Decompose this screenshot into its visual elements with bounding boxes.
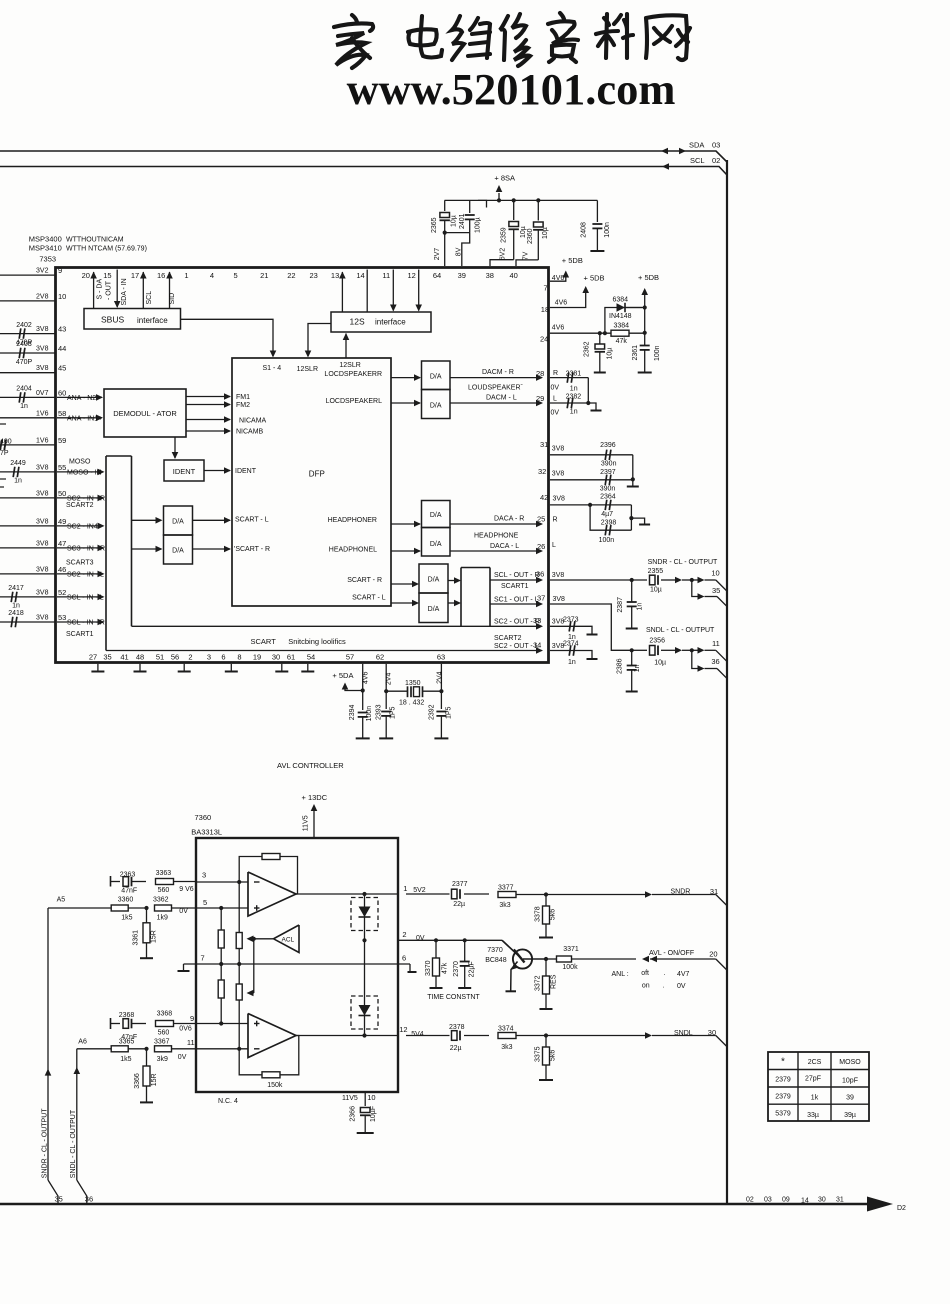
label SC2-OUT-R <box>494 619 540 626</box>
svg-text:+ 5DB: + 5DB <box>562 256 583 265</box>
svg-text:AVL CONTROLLER: AVL CONTROLLER <box>277 761 344 770</box>
wire stub fragment left margin (pin58 row) <box>0 423 6 425</box>
op-amp lower (SNDL) <box>248 1014 296 1058</box>
svg-text:34: 34 <box>533 641 541 650</box>
svg-text:14: 14 <box>801 1198 809 1205</box>
svg-text:IDENT: IDENT <box>173 467 196 476</box>
wire +5DB vertical (right of diode) <box>641 288 648 345</box>
svg-text:2449: 2449 <box>10 460 26 467</box>
resistor 3375 5k6 (to ground) <box>535 1036 557 1081</box>
svg-text:33µ: 33µ <box>807 1112 819 1119</box>
svg-text:+ 5DA: + 5DA <box>332 671 353 680</box>
svg-text:SDA: SDA <box>689 141 704 150</box>
svg-text:'SCART - R: 'SCART - R <box>234 546 270 553</box>
pin number 31 / label 3V8 <box>540 440 564 453</box>
pin 35 connector <box>712 586 720 595</box>
resistor internal lower-left <box>218 980 224 998</box>
pin 35 label (bottom) <box>55 1195 63 1204</box>
svg-text:2417: 2417 <box>8 585 24 592</box>
label R / 0V (pin 28) <box>551 370 560 392</box>
svg-text:50: 50 <box>58 489 66 498</box>
transistor 7370 BC848 <box>502 940 544 991</box>
wire pin14 into 12S <box>366 270 368 313</box>
svg-text:0V7: 0V7 <box>36 390 49 397</box>
pin number 43 (left edge) <box>58 325 66 334</box>
svg-text:41: 41 <box>120 653 128 662</box>
svg-text:3360: 3360 <box>118 897 134 904</box>
svg-text:ANA - IN1+: ANA - IN1+ <box>67 415 102 422</box>
capacitor 2402 470P on pin 43 wire <box>16 322 33 347</box>
svg-text:100n: 100n <box>366 706 373 722</box>
diode clamp lower (dashed box) <box>351 996 378 1029</box>
svg-text:15: 15 <box>103 271 111 280</box>
label 6384 <box>613 296 629 303</box>
wire SNDR-CL-OUTPUT rail <box>45 908 58 1204</box>
svg-text:0V: 0V <box>178 1054 187 1061</box>
label LOUDSPEAKER' <box>468 385 524 392</box>
arrow D2 bus (bottom right) <box>867 1197 893 1212</box>
wire DFP HEADPHONER to D/A <box>391 521 421 528</box>
pin number 33 <box>533 616 541 625</box>
resistor 150k feedback (lower) <box>262 1072 283 1089</box>
svg-text:0V6: 0V6 <box>179 1026 192 1033</box>
svg-text:35: 35 <box>103 653 111 662</box>
wire DFP LOCDSPEAKERL to D/A <box>391 400 421 407</box>
svg-text:L: L <box>552 542 556 549</box>
svg-text:1k5: 1k5 <box>120 1056 131 1063</box>
wire input into SCART switch at y=525.9 <box>57 523 105 530</box>
svg-text:HEADPHONEL: HEADPHONEL <box>329 547 377 554</box>
wire pin12 to SNDL net <box>406 1035 489 1037</box>
svg-text:1n: 1n <box>634 664 641 672</box>
svg-text:64: 64 <box>433 271 441 280</box>
svg-text:32: 32 <box>538 467 546 476</box>
svg-text:1: 1 <box>184 271 188 280</box>
svg-text:40: 40 <box>510 271 518 280</box>
svg-text:7V: 7V <box>522 251 529 260</box>
label SC2-OUT-L <box>494 643 539 650</box>
svg-text:R: R <box>553 370 558 377</box>
label SCL-OUT-R <box>494 572 540 579</box>
svg-text:MOSO - IN: MOSO - IN <box>67 469 102 476</box>
wire +8SA rail <box>445 198 598 202</box>
svg-text:3367: 3367 <box>154 1038 170 1045</box>
svg-text:10pF: 10pF <box>842 1078 858 1085</box>
capacitor 2382 1n <box>550 394 588 416</box>
wire 2368 to 3368 <box>132 1023 146 1025</box>
svg-text:SNDR: SNDR <box>671 888 691 895</box>
wire pin13 into 12S <box>339 272 346 313</box>
label 7V <box>522 251 529 260</box>
wire pin17 SCL to SBUS <box>140 272 147 309</box>
label SCART-R (DFP output) <box>347 577 382 584</box>
pin number 52 (left edge) <box>58 588 66 597</box>
svg-text:22µF: 22µF <box>469 961 476 977</box>
capacitor 2394 100n <box>349 705 373 739</box>
svg-text:30: 30 <box>818 1197 826 1204</box>
svg-text:0V: 0V <box>179 908 188 915</box>
wire DACM-R to pin 28 <box>450 374 543 381</box>
wire pin10 bottom / capacitor 2366 10uF <box>357 1092 374 1133</box>
wire pin16 SID to SBUS <box>166 272 173 309</box>
pin number 29 <box>536 394 544 403</box>
svg-text:42: 42 <box>540 493 548 502</box>
svg-text:27pF: 27pF <box>805 1076 821 1083</box>
wire SC2-OUT-R to pin 33 <box>132 623 544 630</box>
svg-text:3384: 3384 <box>614 322 630 329</box>
svg-text:43: 43 <box>58 325 66 334</box>
pin number 1 / label 5V2 <box>403 884 426 894</box>
svg-text:560: 560 <box>158 1030 170 1037</box>
pin number 30 (connector) <box>708 1028 716 1037</box>
wire input stub (lower, to 2368) <box>111 1018 121 1029</box>
svg-text:A6: A6 <box>78 1038 87 1045</box>
svg-text:470P: 470P <box>16 359 33 366</box>
svg-text:53: 53 <box>58 613 66 622</box>
svg-text:11: 11 <box>382 271 390 280</box>
label SCART3 <box>66 559 94 566</box>
wire input into SCART switch at y=573.9 <box>57 571 105 578</box>
svg-text:SCART1: SCART1 <box>501 583 529 590</box>
svg-text:3V8: 3V8 <box>36 464 49 471</box>
svg-text:3V8: 3V8 <box>36 490 49 497</box>
svg-text:2365: 2365 <box>431 217 438 233</box>
svg-text:ACL: ACL <box>282 937 295 944</box>
table row 5379 33u 39u <box>775 1111 856 1120</box>
svg-text:3V8: 3V8 <box>36 518 49 525</box>
label 7P fragment (left margin) <box>0 450 9 457</box>
svg-text:2CS: 2CS <box>808 1059 822 1066</box>
label HEADPHONEL <box>329 547 377 554</box>
svg-text:SCL: SCL <box>146 291 153 305</box>
svg-text:*: * <box>781 1057 785 1068</box>
wire input stub (upper, to 2363) <box>111 876 121 887</box>
pin number 60 (left edge) <box>58 388 66 397</box>
table component-variants outline <box>768 1052 869 1121</box>
svg-text:47: 47 <box>58 539 66 548</box>
svg-text:2355: 2355 <box>648 568 664 575</box>
wire DACM-L to pin 29 <box>450 400 543 407</box>
label 4V6 (pin 7) <box>552 275 565 282</box>
svg-text:3V8: 3V8 <box>552 572 565 579</box>
block IDENT <box>164 460 204 481</box>
svg-text:IDENT: IDENT <box>235 468 257 475</box>
pin number 11 / wire - input (lower) <box>187 1038 248 1049</box>
capacitor 2359 10u <box>500 200 527 259</box>
svg-text:3V8: 3V8 <box>553 596 566 603</box>
svg-text:2V4: 2V4 <box>386 673 393 686</box>
pin number 46 (left edge) <box>58 565 66 574</box>
pin 36 label (bottom) <box>85 1195 93 1204</box>
svg-text:47k: 47k <box>442 962 449 974</box>
svg-text:1n: 1n <box>570 409 578 416</box>
wire pin 60 (0V7) left <box>0 396 56 398</box>
label SCART-R (DFP input) <box>234 546 270 553</box>
svg-text:2394: 2394 <box>349 705 356 721</box>
svg-text:BC848: BC848 <box>485 957 507 964</box>
svg-text:14: 14 <box>356 271 364 280</box>
wire pin1 output row <box>296 893 398 895</box>
svg-text:0V: 0V <box>416 935 425 942</box>
wire pin 9 (3V2) left <box>0 274 56 276</box>
svg-text:+ 5DB: + 5DB <box>584 274 605 283</box>
svg-text:49: 49 <box>58 517 66 526</box>
wire pin15 SDA-IN to SBUS <box>114 270 121 309</box>
svg-text:20: 20 <box>82 271 90 280</box>
label SID (pin16) <box>169 293 176 305</box>
ground below IC bottom edge at x=140 <box>134 664 147 672</box>
svg-text:22µ: 22µ <box>450 1045 462 1052</box>
wire demodulator FM1 to DFP <box>186 393 231 400</box>
svg-text:2379: 2379 <box>775 1077 791 1084</box>
svg-text:www.520101.com: www.520101.com <box>347 64 676 114</box>
capacitor 2398 100n <box>599 519 617 544</box>
resistor 3365 1k5 <box>111 1038 134 1063</box>
IC 7360 BA3313L outline box <box>196 838 398 1092</box>
svg-text:61: 61 <box>287 653 295 662</box>
label SCART2 <box>66 502 94 509</box>
svg-text:2370: 2370 <box>453 961 460 977</box>
wire pin60 ANA-N2+ into demodulator <box>57 394 103 401</box>
capacitor 2368 47nF <box>119 1012 137 1041</box>
pin number 28 <box>536 369 544 378</box>
svg-text:29: 29 <box>536 394 544 403</box>
label HEADPHONE <box>474 533 519 540</box>
pin numbers IC bottom edge <box>89 653 445 662</box>
svg-text:2V7: 2V7 <box>434 248 441 261</box>
resistor 3367 3k9 <box>154 1038 172 1063</box>
label L / 0V (pin 29) <box>551 396 560 417</box>
svg-text:44: 44 <box>58 344 66 353</box>
svg-text:36: 36 <box>85 1195 93 1204</box>
svg-text:10µ: 10µ <box>607 348 614 360</box>
label voltage 0V7 pin 60 <box>36 390 49 397</box>
svg-text:47k: 47k <box>616 338 628 345</box>
svg-text:51: 51 <box>156 653 164 662</box>
svg-text:15R: 15R <box>151 930 158 943</box>
svg-text:D/A: D/A <box>428 606 440 613</box>
svg-text:2382: 2382 <box>566 394 582 401</box>
wire SNDR row to border <box>516 891 727 905</box>
power +8SA arrow <box>496 185 503 200</box>
svg-text:SCL - IN - R: SCL - IN - R <box>67 620 105 627</box>
svg-text:- OUT: - OUT <box>106 280 113 300</box>
svg-text:3361: 3361 <box>132 930 139 946</box>
wire SBUS to DFP S1-4 <box>181 319 277 357</box>
label pin name ANA - IN1+ <box>67 415 102 422</box>
svg-text:1n: 1n <box>637 603 644 611</box>
wire stub fragment left margin (pin55 row) <box>0 479 6 487</box>
svg-text:27: 27 <box>89 653 97 662</box>
svg-text:2364: 2364 <box>600 494 616 501</box>
wire 2363 to 3363 <box>132 881 146 883</box>
label N.C.4 <box>218 1098 238 1105</box>
label +5DB (pin18) <box>584 274 605 283</box>
wire input into SCART switch at y=596.9 <box>57 594 105 601</box>
svg-text:3V2: 3V2 <box>36 268 49 275</box>
capacitor 2393 1P5 <box>376 704 397 738</box>
label R (pin 25) <box>553 517 558 524</box>
svg-text:4µ7: 4µ7 <box>601 511 613 518</box>
svg-text:3k3: 3k3 <box>501 1044 512 1051</box>
label pin name SC2 - IN - L <box>67 571 104 578</box>
wire demodulator NICAMA to DFP <box>186 416 231 423</box>
label DACM-L <box>486 394 517 401</box>
svg-text:SC2 - IN - L: SC2 - IN - L <box>67 571 104 578</box>
wire pin 59 (1V6) left <box>0 444 56 446</box>
svg-text:3k3: 3k3 <box>499 902 510 909</box>
pin number 24 <box>540 334 548 343</box>
wire pin1 to SNDR net <box>406 893 489 895</box>
label 11V5 (pin top) <box>303 815 310 831</box>
svg-text:D/A: D/A <box>172 519 184 526</box>
svg-text:7360: 7360 <box>195 813 212 822</box>
wire 12S to DFP (12SLR down) <box>305 324 331 358</box>
svg-text:2381: 2381 <box>566 370 582 377</box>
svg-text:09: 09 <box>782 1197 790 1204</box>
svg-text:2378: 2378 <box>449 1024 465 1031</box>
svg-text:5V4: 5V4 <box>411 1031 424 1038</box>
wire 2381/2382 join + ground <box>586 378 601 411</box>
capacitor 2370 22uF (time constant) <box>453 940 476 988</box>
label 7370 BC848 <box>485 947 507 964</box>
capacitor 2397 390n <box>550 469 633 493</box>
svg-text:8V: 8V <box>456 247 463 256</box>
wire demodulator to IDENT <box>172 437 179 459</box>
svg-text:BA3313L: BA3313L <box>191 828 222 837</box>
svg-text:SCART: SCART <box>251 637 277 646</box>
svg-text:100k: 100k <box>562 964 578 971</box>
svg-text:31: 31 <box>540 440 548 449</box>
svg-text:36: 36 <box>536 570 544 579</box>
label ANL: off 4V7 / on 0V <box>612 970 690 990</box>
svg-text:47nF: 47nF <box>121 888 137 895</box>
svg-text:7P: 7P <box>0 450 9 457</box>
pin number 2 / label 0V <box>402 930 424 942</box>
svg-text:SNDL - CL - OUTPUT: SNDL - CL - OUTPUT <box>70 1109 77 1178</box>
svg-text:2404: 2404 <box>16 386 32 393</box>
svg-text:interface: interface <box>375 318 406 327</box>
svg-text:1V6: 1V6 <box>36 410 49 417</box>
svg-text:12: 12 <box>408 271 416 280</box>
wire pin12 into 12S <box>415 270 422 312</box>
svg-text:AVL - ON/OFF: AVL - ON/OFF <box>649 950 694 957</box>
svg-text:2403: 2403 <box>16 341 32 348</box>
svg-text:D/A: D/A <box>172 548 184 555</box>
label SNDR-CL-OUTPUT (rotated) <box>42 1108 49 1178</box>
svg-text:D/A: D/A <box>430 512 442 519</box>
block SCART switch right column <box>461 568 490 627</box>
ground below IC bottom edge at x=184.2 <box>178 664 191 672</box>
wire pin7-pin6 line through chip <box>184 963 411 965</box>
ACL control amp triangle <box>274 925 300 953</box>
svg-text:13: 13 <box>331 271 339 280</box>
label DFP <box>309 470 325 479</box>
label pin name SC2 - IN - R <box>67 495 105 502</box>
svg-text:SDA - IN: SDA - IN <box>121 278 128 305</box>
svg-text:S1 - 4: S1 - 4 <box>263 365 282 372</box>
label SCL 02 <box>690 156 720 165</box>
svg-text:33: 33 <box>533 616 541 625</box>
label SCART-L (DFP output) <box>352 594 386 601</box>
label SC1-OUT-L <box>494 597 539 604</box>
label pin name SCL - IN - R <box>67 620 105 627</box>
pin number 31 (connector) <box>710 887 718 896</box>
wire scart D/A to output column (lower) <box>448 600 461 607</box>
resistor 3371 100k <box>557 946 579 971</box>
label 2V4 (pin63) <box>437 671 444 684</box>
capacitor 2374 1n <box>550 641 598 667</box>
svg-text:3V8: 3V8 <box>553 495 566 502</box>
svg-text:on: on <box>642 982 650 989</box>
svg-text:45: 45 <box>58 364 66 373</box>
svg-text:SCART3: SCART3 <box>66 559 94 566</box>
svg-text:2397: 2397 <box>600 469 616 476</box>
svg-text:24: 24 <box>540 334 548 343</box>
arrow SDA left <box>661 148 668 155</box>
svg-text:2: 2 <box>188 653 192 662</box>
svg-text:L: L <box>553 396 557 403</box>
label SCART2 (right) <box>494 635 522 642</box>
block SBUS interface <box>84 309 181 330</box>
pin number 26 <box>537 542 545 551</box>
svg-text:52: 52 <box>58 588 66 597</box>
svg-text:FM1: FM1 <box>236 394 250 401</box>
ground below IC bottom edge at x=281.8 <box>275 664 288 672</box>
svg-text:1: 1 <box>403 884 407 893</box>
svg-text:+ 5DB: + 5DB <box>638 273 659 282</box>
pin 10 connector <box>711 569 719 578</box>
label SNDL-CL-OUTPUT <box>646 627 715 634</box>
svg-text:LOCDSPEAKERL: LOCDSPEAKERL <box>326 398 383 405</box>
label 11V5 / pin number 10 <box>342 1093 376 1102</box>
label 6V2 <box>500 248 507 261</box>
svg-text:3V8: 3V8 <box>36 589 49 596</box>
svg-text:31: 31 <box>710 887 718 896</box>
svg-text:3V8: 3V8 <box>36 566 49 573</box>
diode 6384 IN4148 branch <box>605 303 645 333</box>
svg-text:5: 5 <box>234 271 238 280</box>
pin number 12 / label 5V4 <box>399 1025 424 1038</box>
svg-text:3: 3 <box>207 653 211 662</box>
svg-text:6: 6 <box>221 653 225 662</box>
svg-text:SNDR - CL - OUTPUT: SNDR - CL - OUTPUT <box>648 559 718 566</box>
wire input into SCART switch at y=471.9 <box>57 469 105 476</box>
ground below IC bottom edge at x=231.3 <box>225 664 238 672</box>
wire bottom border bus <box>0 1203 878 1206</box>
svg-text:WTTHOUTNICAM: WTTHOUTNICAM <box>66 237 124 244</box>
wire 2396/2397 join + ground <box>627 455 639 487</box>
svg-text:7353: 7353 <box>39 254 56 263</box>
pin number 47 (left edge) <box>58 539 66 548</box>
svg-text:3362: 3362 <box>153 897 169 904</box>
wire SCL bus line (top) <box>0 167 727 176</box>
svg-text:2361: 2361 <box>632 345 639 361</box>
svg-text:MSP3410: MSP3410 <box>29 244 62 253</box>
wire pin 47 (3V8) left <box>0 547 56 549</box>
svg-text:SNDL: SNDL <box>674 1030 693 1037</box>
wire rail hook (left end) <box>478 200 487 207</box>
resistor feedback (upper op-amp) <box>262 854 280 860</box>
D/A converter (headphone R) <box>422 501 451 528</box>
svg-text:2379: 2379 <box>775 1094 791 1101</box>
svg-text:A5: A5 <box>57 897 66 904</box>
label voltage 1V6 pin 58 <box>36 410 49 417</box>
wire DACA-R to pin 25 <box>450 521 543 528</box>
label voltage 3V8 pin 53 <box>36 615 49 622</box>
label voltage 3V2 pin 9 <box>36 268 49 275</box>
capacitor 2400 on pin 59 wire <box>0 440 6 450</box>
